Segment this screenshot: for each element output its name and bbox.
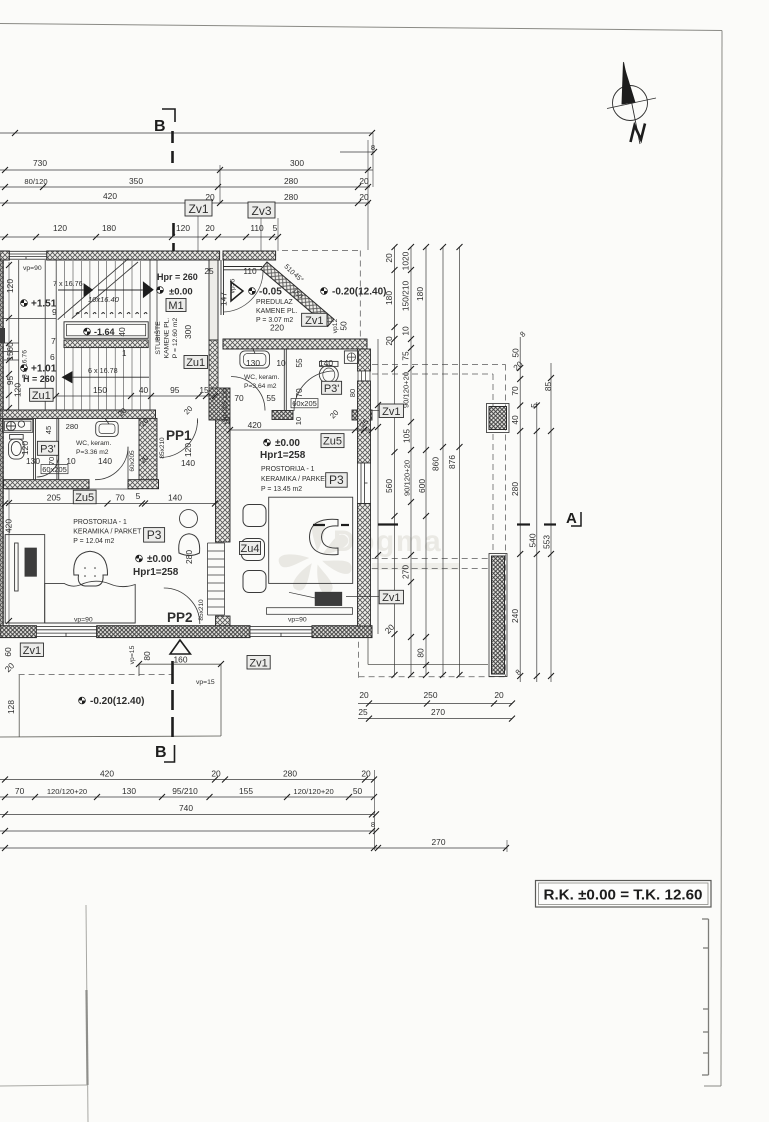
svg-text:10: 10	[223, 417, 232, 425]
bottom dimension block	[0, 690, 515, 852]
section A dash line	[313, 523, 556, 526]
wc3 toilet bowl	[319, 365, 338, 383]
door PP1 arc	[160, 420, 198, 458]
svg-text:270: 270	[431, 707, 445, 717]
svg-text:280: 280	[284, 176, 298, 186]
svg-text:128: 128	[6, 700, 16, 714]
wc3 door arc right	[294, 371, 334, 411]
svg-text:5: 5	[529, 403, 539, 408]
top exterior wall left segment	[0, 251, 9, 260]
bottom wall segment 3	[312, 626, 372, 638]
svg-text:95: 95	[170, 385, 180, 395]
bottom window W3	[250, 627, 312, 637]
triangle marker bottom	[170, 640, 190, 654]
svg-text:280: 280	[283, 769, 297, 779]
round side table	[180, 510, 198, 528]
bottom left labels	[20, 643, 43, 657]
svg-text:6 x 16.78: 6 x 16.78	[88, 366, 118, 375]
low sill line bottom-left room	[5, 488, 139, 490]
stair right wall upper (plain)	[209, 260, 224, 340]
svg-text:B: B	[154, 118, 166, 135]
svg-text:P3': P3'	[40, 443, 56, 455]
svg-text:Zv1: Zv1	[382, 592, 400, 604]
right border line	[721, 31, 722, 1087]
svg-text:-1.64: -1.64	[94, 327, 115, 337]
svg-text:120: 120	[53, 223, 67, 233]
svg-text:40: 40	[139, 385, 149, 395]
svg-text:1: 1	[122, 349, 127, 358]
upper flight treads	[65, 261, 141, 318]
slant ticks	[2, 130, 377, 240]
dining table	[269, 497, 353, 583]
svg-text:8: 8	[371, 143, 375, 152]
svg-text:20: 20	[359, 176, 369, 186]
wc2 south wall left	[4, 480, 90, 489]
svg-text:Hpr1=258: Hpr1=258	[260, 450, 306, 461]
svg-text:280: 280	[66, 422, 79, 431]
svg-text:P=3.64 m2: P=3.64 m2	[244, 383, 277, 390]
right dimension block	[346, 244, 554, 682]
group B ticks	[517, 365, 554, 679]
svg-text:140: 140	[98, 456, 112, 466]
svg-text:600: 600	[417, 479, 427, 493]
svg-text:70: 70	[510, 386, 520, 396]
svg-text:147: 147	[219, 292, 229, 306]
terrace pillar top	[487, 404, 510, 433]
svg-text:70: 70	[115, 493, 125, 503]
desk left room	[5, 535, 45, 623]
svg-text:P3: P3	[147, 528, 162, 542]
section B top bracket	[162, 109, 175, 122]
zu5 dim line wc	[227, 427, 375, 433]
svg-text:8: 8	[371, 820, 375, 829]
terrace dashed outline	[282, 251, 507, 679]
svg-text:70: 70	[15, 786, 25, 796]
room1 dim line	[2, 501, 218, 507]
svg-text:25: 25	[358, 707, 368, 717]
labels and texts	[3, 263, 387, 714]
svg-text:Hpr1=258: Hpr1=258	[133, 567, 179, 578]
plan walls	[0, 251, 509, 738]
svg-text:130: 130	[246, 358, 260, 368]
svg-text:Zv1: Zv1	[305, 315, 323, 327]
svg-text:KERAMIKA / PARKET: KERAMIKA / PARKET	[261, 476, 330, 483]
dining chairs left	[242, 505, 267, 593]
svg-text:270: 270	[401, 565, 411, 579]
vertical dim lines group A	[378, 247, 460, 675]
wall pier PP1	[209, 388, 230, 420]
desk shelf	[15, 543, 19, 591]
svg-text:85x210: 85x210	[159, 437, 166, 459]
svg-text:5: 5	[136, 491, 141, 501]
left wc washbasin circle cross	[6, 421, 15, 430]
hall west wall	[139, 418, 157, 481]
svg-text:PROSTORIJA - 1: PROSTORIJA - 1	[73, 519, 127, 526]
svg-text:300: 300	[290, 158, 304, 168]
svg-text:+1.01: +1.01	[31, 364, 57, 375]
svg-text:150: 150	[93, 385, 107, 395]
border foot	[704, 1085, 721, 1087]
right exterior wall hatch top	[358, 349, 371, 371]
dashed line left terrace	[19, 674, 172, 676]
partition between rooms	[216, 420, 231, 542]
svg-text:130: 130	[122, 786, 136, 796]
svg-text:270: 270	[432, 837, 446, 847]
stair diagonal break lines	[58, 259, 138, 320]
svg-text:876: 876	[447, 455, 457, 469]
svg-text:80/120: 80/120	[24, 177, 47, 186]
svg-text:205: 205	[47, 493, 61, 503]
cabin partition 1	[33, 418, 35, 479]
dim row 4	[0, 830, 374, 832]
svg-text:KERAMIKA / PARKET: KERAMIKA / PARKET	[73, 529, 142, 536]
svg-text:45: 45	[44, 426, 53, 434]
svg-text:95/210: 95/210	[172, 786, 198, 796]
svg-text:40: 40	[510, 415, 520, 425]
dim line row 0b right stub	[340, 151, 375, 153]
svg-text:220: 220	[270, 323, 284, 333]
svg-text:120: 120	[176, 223, 190, 233]
right exterior wall hatch bottom	[358, 504, 371, 627]
compass circle	[613, 86, 648, 121]
svg-text:300: 300	[183, 325, 193, 339]
svg-text:vp=5: vp=5	[230, 278, 237, 293]
svg-text:P = 12.04 m2: P = 12.04 m2	[73, 538, 114, 545]
section lines	[154, 109, 581, 762]
stair arrow upper left	[84, 283, 94, 297]
zv1 box below bottom wall	[247, 656, 270, 670]
svg-text:240: 240	[510, 609, 520, 623]
svg-text:110: 110	[250, 223, 264, 233]
svg-text:280: 280	[284, 192, 298, 202]
toilet 1 tank	[10, 435, 24, 440]
right ruler bracket	[702, 919, 709, 1075]
svg-text:420: 420	[4, 519, 14, 533]
svg-text:110: 110	[243, 266, 257, 276]
svg-text:740: 740	[179, 803, 193, 813]
office chair	[74, 551, 108, 586]
svg-text:PP1: PP1	[166, 428, 192, 443]
wc3 drain square	[344, 351, 358, 364]
vertical dim lines group B	[520, 337, 551, 682]
window vp=90 top wall	[9, 251, 46, 259]
svg-text:PROSTORIJA - 1: PROSTORIJA - 1	[261, 466, 315, 473]
bottom window W2	[36, 627, 96, 637]
right dim rows	[358, 703, 512, 705]
svg-text:P3': P3'	[324, 383, 340, 395]
svg-text:140: 140	[319, 358, 333, 368]
top exterior wall mid segment	[47, 251, 220, 260]
section B bottom dash line	[171, 661, 174, 737]
Zv1 box right lower	[346, 590, 404, 604]
svg-text:420: 420	[103, 191, 117, 201]
svg-text:50: 50	[339, 321, 349, 331]
section A bracket	[571, 512, 581, 526]
svg-text:WC, keram.: WC, keram.	[76, 440, 111, 447]
svg-text:420: 420	[100, 769, 114, 779]
svg-text:P = 13.45 m2: P = 13.45 m2	[261, 486, 302, 493]
fold vertical line	[86, 905, 88, 1122]
svg-text:120: 120	[183, 443, 193, 457]
wc3 sink	[240, 351, 270, 368]
compass filled needle	[622, 62, 636, 105]
tv dark rect	[315, 592, 342, 605]
bottom wall segment 2	[97, 626, 250, 638]
svg-text:9: 9	[52, 307, 57, 317]
entry door leaf triangle	[231, 282, 243, 301]
svg-text:70: 70	[294, 388, 304, 398]
dim line row 1 (730/300)	[0, 169, 373, 171]
small left steps	[2, 319, 56, 361]
svg-text:H = 260: H = 260	[23, 374, 55, 384]
compass N letter	[631, 124, 646, 143]
wc2 sink	[96, 421, 119, 436]
stair arrow upper right	[143, 281, 154, 298]
svg-text:85x210: 85x210	[198, 599, 205, 621]
watermark logo flower	[279, 520, 459, 595]
svg-text:Hpr = 260: Hpr = 260	[157, 272, 198, 282]
landing hatch band	[64, 340, 148, 348]
terrace pillar strip	[489, 554, 507, 677]
radiator ladder between rooms	[208, 543, 225, 615]
group A rotated labels	[383, 251, 457, 657]
dark pier left edge	[0, 328, 5, 343]
RK box	[536, 881, 712, 908]
Zv3 box top	[248, 202, 275, 218]
dim line row 2 (80/120,350,280,20)	[0, 186, 370, 188]
svg-text:Zu5: Zu5	[323, 436, 342, 448]
svg-text:10: 10	[276, 358, 286, 368]
room2 texts	[264, 439, 271, 446]
svg-text:90/120+20: 90/120+20	[403, 460, 412, 496]
right wall small window	[358, 371, 370, 381]
fold horizontal line	[0, 1085, 87, 1086]
svg-text:140: 140	[181, 458, 195, 468]
svg-text:1020: 1020	[401, 251, 411, 270]
dining armchair right	[310, 519, 339, 555]
svg-text:280: 280	[184, 550, 194, 564]
bench cabinet	[267, 608, 353, 615]
svg-text:105: 105	[402, 429, 412, 443]
entry door threshold	[223, 267, 262, 270]
under-stair dim line	[53, 393, 218, 399]
svg-text:Zv1: Zv1	[188, 202, 208, 216]
svg-text:6: 6	[50, 352, 55, 362]
svg-text:15: 15	[5, 351, 15, 361]
svg-text:130: 130	[26, 456, 40, 466]
wc2 door arc	[95, 447, 128, 480]
svg-text:55: 55	[266, 393, 276, 403]
svg-text:20: 20	[359, 192, 369, 202]
wc2 south wall right	[128, 480, 159, 489]
svg-text:80: 80	[142, 651, 152, 661]
svg-text:±0.00: ±0.00	[275, 438, 300, 449]
svg-text:20: 20	[361, 769, 371, 779]
compass needle shaft	[624, 62, 641, 144]
svg-text:75: 75	[401, 351, 411, 361]
svg-text:40: 40	[117, 327, 127, 337]
wc3 door arc left	[231, 377, 265, 411]
desk monitor dark	[25, 548, 36, 576]
svg-text:Zu4: Zu4	[241, 543, 260, 555]
svg-text:Zv3: Zv3	[251, 204, 271, 218]
svg-text:60x205: 60x205	[42, 465, 67, 474]
bottom wall segment 1	[0, 626, 36, 638]
svg-text:10x16.40: 10x16.40	[88, 295, 120, 304]
lower terrace thin outline left	[0, 664, 221, 737]
svg-text:7 x 16.76: 7 x 16.76	[53, 279, 83, 288]
svg-text:180: 180	[102, 223, 116, 233]
svg-text:90/120+20: 90/120+20	[402, 372, 411, 408]
svg-text:-0.20(12.40): -0.20(12.40)	[332, 287, 386, 298]
WC south wall piers	[272, 411, 293, 420]
side chair	[179, 534, 200, 556]
left exterior wall sliver	[0, 260, 4, 637]
svg-text:250: 250	[424, 690, 438, 700]
svg-text:15: 15	[199, 385, 209, 395]
dim texts	[24, 143, 375, 233]
dim row 1	[0, 779, 374, 781]
svg-text:540: 540	[528, 533, 538, 547]
landing box	[64, 322, 148, 339]
svg-text:120: 120	[12, 383, 22, 397]
svg-text:80: 80	[348, 389, 357, 397]
svg-text:160: 160	[174, 655, 188, 665]
svg-text:60: 60	[5, 342, 15, 352]
svg-text:vp=90: vp=90	[23, 265, 42, 272]
svg-text:Zu1: Zu1	[186, 357, 205, 369]
top border line	[0, 24, 722, 31]
svg-text:KAMENE PL.: KAMENE PL.	[256, 308, 297, 315]
svg-text:70: 70	[234, 393, 244, 403]
svg-text:50: 50	[353, 786, 363, 796]
svg-text:vp=15: vp=15	[129, 645, 136, 664]
svg-text:20: 20	[211, 769, 221, 779]
group B rotated labels	[510, 330, 553, 677]
tread tick marks	[76, 313, 147, 315]
svg-text:STUBIŠTE: STUBIŠTE	[153, 321, 162, 355]
svg-text:Zv1: Zv1	[249, 657, 267, 669]
group A ticks	[375, 244, 463, 678]
Zv1 box top	[185, 200, 212, 216]
right exterior wall hatch mid	[358, 381, 371, 463]
svg-text:-0.05: -0.05	[259, 287, 282, 298]
section B bottom bracket	[164, 745, 175, 762]
svg-text:20: 20	[359, 690, 369, 700]
svg-text:WC, keram.: WC, keram.	[244, 374, 279, 381]
svg-text:120/120+20: 120/120+20	[293, 787, 333, 796]
svg-text:vp=90: vp=90	[74, 617, 93, 624]
dim row 3	[0, 813, 374, 815]
dim line row 3 (420,20,280,20)	[0, 202, 370, 204]
svg-text:60: 60	[3, 647, 13, 657]
stair well boundary lines	[2, 260, 157, 626]
svg-text:±0.00: ±0.00	[169, 287, 193, 298]
svg-text:PREDULAZ: PREDULAZ	[256, 299, 293, 306]
line under triangle	[136, 661, 224, 676]
svg-text:P = 12.60 m2: P = 12.60 m2	[172, 318, 179, 359]
svg-text:85: 85	[543, 382, 553, 392]
stairs	[2, 259, 224, 626]
section B top dash line	[173, 131, 174, 251]
svg-text:7: 7	[51, 336, 56, 346]
compass north arrow	[607, 62, 656, 144]
lower right steps lines	[368, 638, 488, 665]
cabin partition 2	[56, 418, 58, 479]
svg-text:±0.00: ±0.00	[147, 554, 172, 565]
svg-text:Zv1: Zv1	[23, 645, 41, 657]
stairs south wall	[0, 410, 156, 418]
svg-text:Zu1: Zu1	[32, 390, 51, 402]
svg-text:20: 20	[384, 253, 394, 263]
svg-text:120/120+20: 120/120+20	[47, 787, 87, 796]
svg-text:280: 280	[510, 482, 520, 496]
wc3 toilet tank	[320, 361, 339, 366]
svg-text:10: 10	[294, 417, 303, 425]
lower flight treads	[65, 348, 141, 410]
svg-text:140: 140	[168, 493, 182, 503]
svg-text:553: 553	[542, 535, 552, 549]
entry door swing arc	[223, 271, 263, 312]
dim line row 4 (120,180,...)	[0, 236, 278, 238]
Zv1 box right upper	[370, 404, 404, 418]
svg-text:R.K. ±0.00 = T.K. 12.60: R.K. ±0.00 = T.K. 12.60	[543, 887, 702, 904]
svg-text:560: 560	[384, 479, 394, 493]
stair right wall lower (hatched)	[209, 340, 218, 418]
svg-text:B: B	[155, 744, 167, 761]
desk return with wavy edge	[45, 581, 136, 623]
svg-text:60x205: 60x205	[292, 399, 317, 408]
svg-text:120: 120	[20, 441, 30, 455]
fold artifacts	[0, 905, 709, 1122]
left wc small oval	[18, 421, 24, 427]
svg-text:20: 20	[384, 336, 394, 346]
svg-text:PP2: PP2	[167, 610, 193, 625]
svg-text:50: 50	[511, 348, 521, 358]
cabin door arc	[37, 455, 59, 477]
svg-text:150/210: 150/210	[401, 281, 411, 312]
WC top wall	[223, 339, 367, 349]
svg-text:730: 730	[33, 158, 47, 168]
wc3 partition	[283, 349, 285, 411]
svg-text:-0.20(12.40): -0.20(12.40)	[90, 696, 144, 707]
svg-text:55: 55	[294, 358, 304, 368]
svg-text:80: 80	[416, 648, 426, 658]
svg-text:20: 20	[205, 223, 215, 233]
top exterior wall right segment	[223, 251, 276, 260]
dim row 2	[0, 796, 374, 798]
svg-text:Zu5: Zu5	[75, 492, 94, 504]
svg-text:M1: M1	[168, 300, 183, 312]
svg-text:P3: P3	[329, 473, 344, 487]
svg-text:180: 180	[415, 287, 425, 301]
right wall window W4	[358, 463, 371, 504]
extension verticals	[219, 165, 221, 203]
dim line row 0	[0, 132, 373, 134]
door PP2 arc	[164, 588, 200, 624]
svg-text:P=3.36 m2: P=3.36 m2	[76, 449, 109, 456]
svg-text:vp=90: vp=90	[288, 617, 307, 624]
svg-text:20: 20	[494, 690, 504, 700]
dim row 5	[0, 847, 507, 849]
svg-text:120: 120	[5, 279, 15, 293]
svg-text:Zv1: Zv1	[382, 406, 400, 418]
svg-text:350: 350	[129, 176, 143, 186]
top dimension block	[0, 130, 377, 251]
svg-text:60x205: 60x205	[129, 450, 136, 472]
toilet 1 bowl	[9, 439, 25, 459]
svg-text:25: 25	[204, 266, 214, 276]
